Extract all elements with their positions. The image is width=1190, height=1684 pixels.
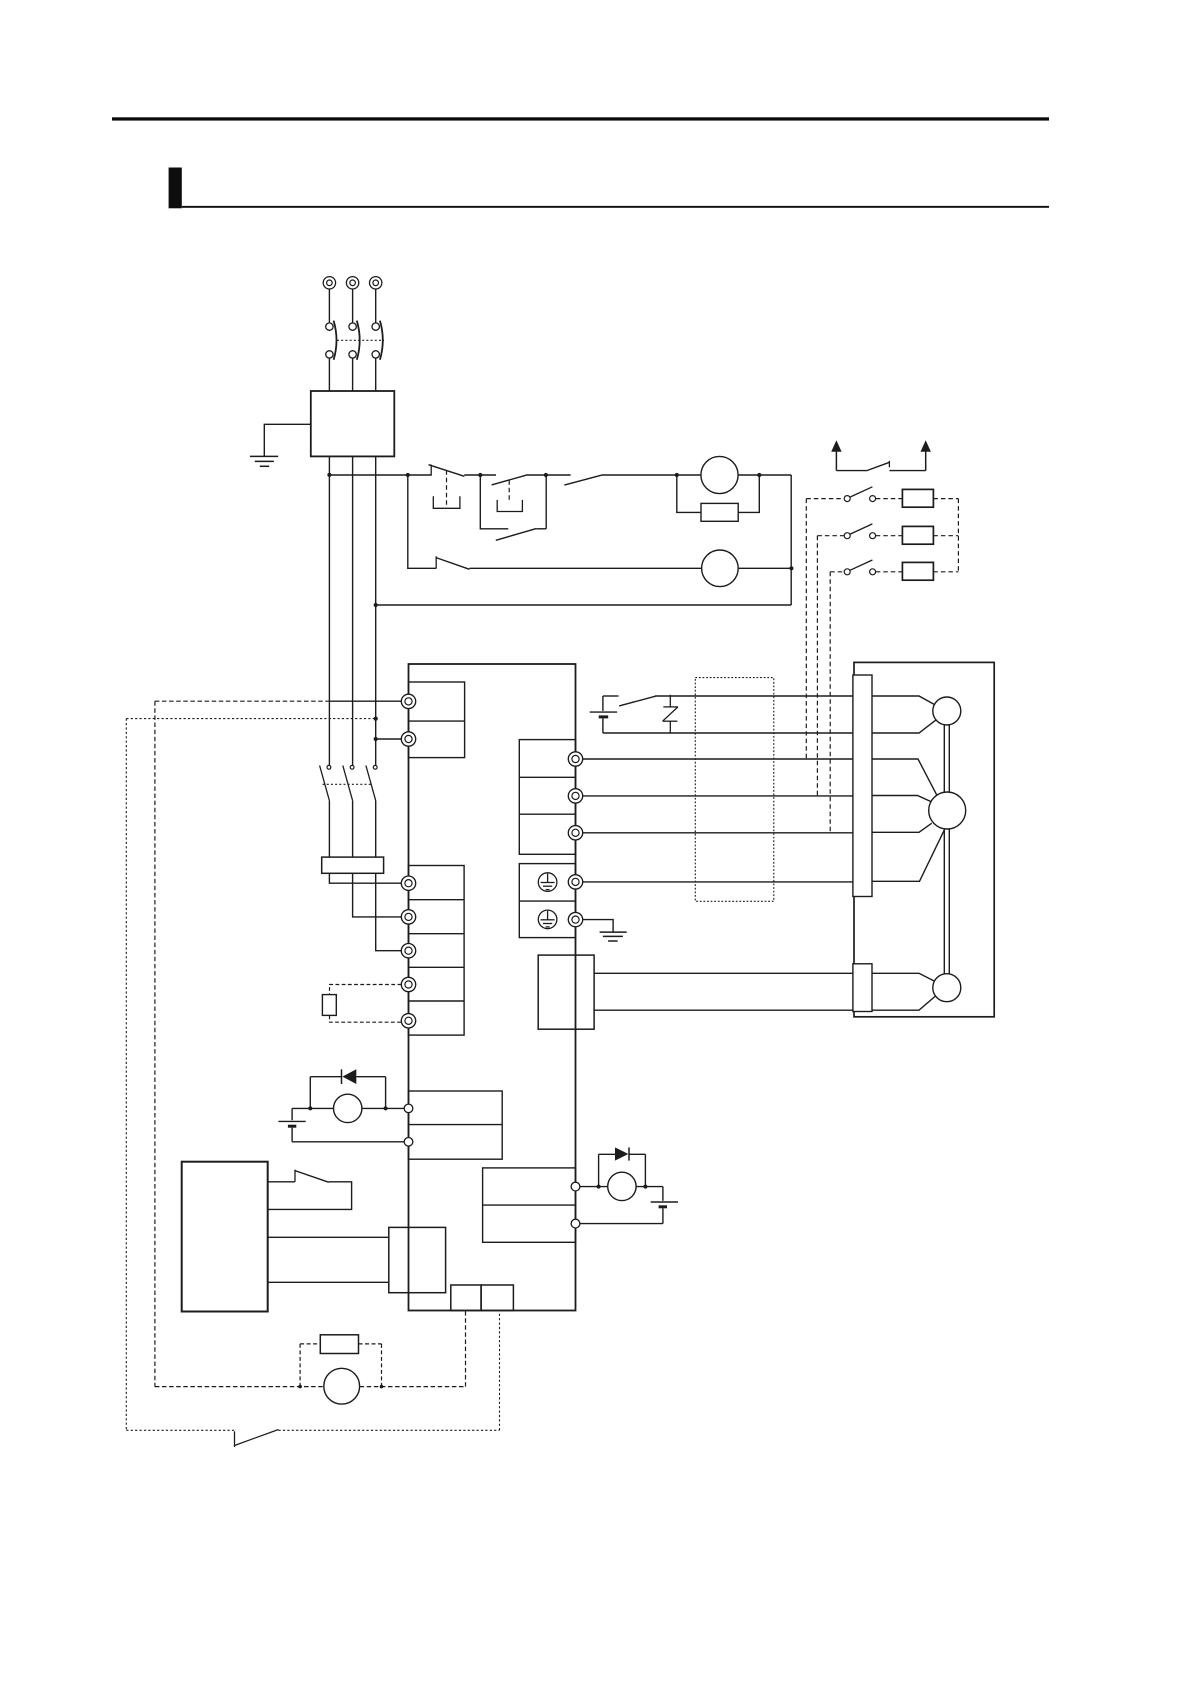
junction brake loop left — [308, 1106, 312, 1110]
relay contact row 2 — [844, 524, 875, 539]
relay coil 1Ry — [701, 456, 738, 493]
wire S MCCB to filter — [352, 358, 354, 391]
self-hold branch bottom-right — [536, 528, 546, 530]
host controller I/O wire 1 — [268, 1236, 389, 1238]
relay contact row 1 dashed lead — [806, 498, 844, 500]
section heading bar — [169, 168, 182, 209]
battery terminal - — [571, 1219, 580, 1228]
motor lead V — [872, 796, 931, 802]
dashed drop row2 to V — [816, 536, 818, 796]
battery unit block — [483, 1168, 576, 1242]
ladder top rail segment 2 — [464, 474, 496, 476]
noise filter box — [311, 391, 395, 456]
phase wire T — [375, 456, 377, 765]
cable marker dotted box — [695, 678, 774, 902]
external battery bottom wire — [580, 1223, 663, 1225]
junction battery frame right — [380, 1385, 384, 1389]
magnetic contactor pole T — [366, 765, 377, 857]
PE symbol 1 — [538, 873, 557, 892]
wire R MCCB to filter — [328, 358, 330, 391]
terminal V — [568, 789, 582, 803]
supply switch tick — [888, 461, 890, 468]
battery unit resistor — [320, 1335, 358, 1354]
regen resistor dashed lead top — [330, 985, 402, 995]
wire T terminal to MCCB — [375, 289, 377, 323]
terminal L1 — [401, 876, 415, 890]
dashed rail B riser to CN5 — [499, 1311, 501, 1431]
motor lead W — [872, 823, 932, 832]
MCCB pole 2 — [349, 321, 360, 360]
motor winding circle — [929, 792, 966, 829]
contact rows right dashed bus — [957, 499, 959, 572]
ladder left rail + rung2 lead — [408, 475, 436, 568]
main circuit terminal block — [409, 866, 465, 1036]
rail B switch — [235, 1430, 279, 1448]
dashed rail A vertical — [154, 701, 156, 1386]
PE terminal 2 — [568, 912, 582, 926]
dashed drop row1 to U — [805, 499, 807, 759]
brake terminal - — [404, 1138, 413, 1147]
surge absorber unit 3 — [902, 562, 933, 580]
relay contact row 3 — [844, 560, 875, 575]
junction battery loop left — [597, 1185, 601, 1189]
section heading rule — [182, 206, 1049, 208]
relay contact row 2 dashed right — [933, 535, 958, 537]
magnetic contactor pole R — [320, 765, 331, 857]
dashed rail B bottom left — [126, 1429, 234, 1431]
ladder bottom rail — [376, 604, 792, 606]
terminal L1C — [401, 694, 415, 708]
terminal L3 — [401, 944, 415, 958]
brake lead - — [872, 719, 937, 733]
connector CN3 — [451, 1285, 481, 1311]
surge absorber (varistor) — [663, 695, 678, 734]
encoder cable wire 1 — [594, 972, 853, 974]
indicator lamp — [702, 550, 739, 587]
terminal U — [568, 752, 582, 766]
surge suppressor branch right — [738, 475, 759, 512]
line reactor box — [322, 857, 384, 873]
motor lead PE — [872, 830, 944, 881]
dashed drop row3 to W — [829, 572, 831, 832]
brake relay loop sides — [310, 1077, 385, 1109]
MCCB pole 3 — [372, 321, 383, 360]
battery diode loop top — [599, 1147, 646, 1160]
brake wire - — [603, 732, 853, 734]
self-hold branch right riser — [545, 475, 547, 529]
contactor linkage dotted — [323, 783, 373, 785]
junction brake loop right — [384, 1106, 388, 1110]
external battery cell — [651, 1187, 678, 1224]
motor wire V — [583, 795, 853, 797]
dashed rail A riser to CN3 — [465, 1311, 467, 1387]
ladder top rail segment 4 — [601, 474, 701, 476]
junction left rail — [406, 473, 410, 477]
terminal B1 — [401, 977, 415, 991]
surge suppressor branch left — [677, 475, 701, 512]
brake diode — [342, 1069, 386, 1084]
motor output terminal block — [519, 740, 575, 855]
motor wire W — [583, 832, 853, 834]
PE symbol 2 — [538, 910, 557, 929]
external regenerative resistor — [322, 995, 336, 1016]
supply terminal R — [323, 277, 335, 289]
phase wire S — [352, 456, 354, 765]
junction self-hold left — [478, 473, 482, 477]
encoder circle — [933, 974, 961, 1002]
motor shaft lower — [944, 829, 949, 974]
relay contact row 1 dashed mid — [876, 498, 903, 500]
relay contact row 1 dashed right — [933, 498, 958, 500]
protective earth block — [519, 864, 575, 938]
filter ground wire — [264, 424, 311, 456]
dashed rail A bottom right — [360, 1386, 466, 1388]
arrow to power supply 1 — [831, 440, 841, 470]
ground symbol (amp) — [600, 932, 627, 941]
wire S terminal to MCCB — [352, 289, 354, 323]
brake supply battery (motor side) — [590, 696, 619, 733]
self-hold relay contact blade — [496, 529, 536, 541]
ground symbol (filter) — [250, 456, 278, 466]
supply switch blade — [866, 462, 890, 471]
supply terminal T — [370, 277, 382, 289]
L1C wire — [329, 700, 401, 702]
interlock contact blade — [564, 475, 601, 485]
terminal L2C — [401, 732, 415, 746]
power OFF pushbutton contact (NC) — [429, 465, 465, 477]
surge absorber unit 1 — [902, 489, 933, 507]
battery circuit wires — [580, 1186, 663, 1188]
motor wire U — [583, 758, 853, 760]
brake circuit bottom wire — [292, 1141, 404, 1143]
motor connector strip 2 — [853, 964, 872, 1012]
PE terminal 1 — [568, 875, 582, 889]
host controller I/O wire 2 — [268, 1281, 389, 1283]
brake output block — [409, 1091, 503, 1159]
wire S to L2 terminal — [353, 873, 402, 917]
L2C dashed (external) — [126, 718, 375, 720]
rung2 rail right — [738, 567, 792, 569]
junction T / L2C wire — [374, 737, 378, 741]
brake relay wires — [292, 1107, 404, 1109]
wire T to L3 terminal — [376, 873, 402, 950]
junction R / ladder rail — [327, 473, 331, 477]
surge absorber unit 2 — [902, 526, 933, 544]
wire R terminal to MCCB — [328, 289, 330, 323]
dashed rail B bottom right — [279, 1429, 500, 1431]
dashed rail B vertical — [125, 719, 127, 1431]
power ON actuator link — [508, 480, 510, 500]
page top rule — [112, 117, 1049, 120]
motor shaft upper — [944, 725, 949, 792]
wire R to L1 terminal — [329, 873, 401, 883]
encoder cable wire 2 — [594, 1009, 853, 1011]
junction rung2 right rail — [789, 566, 793, 570]
regen resistor dashed lead bottom — [330, 1015, 402, 1022]
rung2 relay contact (NC) — [436, 556, 470, 569]
junction T / control dashed — [374, 717, 378, 721]
alarm switch box — [268, 1170, 352, 1210]
power ON pushbutton contact (NO) — [492, 475, 527, 485]
PE ground wire — [583, 920, 613, 932]
relay contact row 3 dashed mid — [876, 571, 903, 573]
junction T / bottom rail — [374, 603, 378, 607]
power OFF actuator link — [446, 470, 448, 508]
ladder top rail segment 5 — [738, 474, 791, 476]
dashed rail A bottom left — [155, 1386, 324, 1388]
rung2 rail left — [469, 567, 701, 569]
junction coil branch — [675, 473, 679, 477]
relay contact row 2 dashed mid — [876, 535, 903, 537]
servo amplifier outline — [409, 664, 576, 1311]
motor connector strip 1 — [853, 675, 872, 897]
junction self-hold right — [544, 473, 548, 477]
brake terminal + — [404, 1104, 413, 1113]
encoder lead 2 — [872, 995, 937, 1010]
brake lead + — [872, 696, 937, 706]
battery diode loop sides — [599, 1154, 646, 1186]
L2C wire — [376, 738, 402, 740]
battery unit dashed frame — [300, 1344, 381, 1387]
battery terminal + — [571, 1182, 580, 1191]
ladder right rail — [790, 475, 792, 605]
brake switch blade — [619, 696, 655, 706]
self-hold branch left/bottom — [480, 475, 508, 529]
motor lead U — [872, 759, 937, 796]
servomotor outline — [854, 662, 994, 1016]
motor wire PE — [583, 881, 853, 883]
relay contact row 3 dashed lead — [830, 571, 844, 573]
magnetic contactor pole S — [343, 765, 354, 857]
connector CN5 — [481, 1285, 513, 1311]
relay contact row 3 dashed right — [933, 571, 958, 573]
arrow to power supply 2 — [921, 440, 931, 470]
junction battery loop right — [643, 1185, 647, 1189]
terminal B2 — [401, 1014, 415, 1028]
supply switch wire left — [836, 470, 866, 472]
terminal L2 — [401, 910, 415, 924]
MCCB linkage dotted — [337, 339, 384, 341]
brake coil circle — [933, 697, 961, 725]
wire T MCCB to filter — [375, 358, 377, 391]
ladder top rail segment 3 — [526, 474, 571, 476]
power ON pushbutton head — [497, 500, 522, 512]
supply terminal S — [346, 277, 358, 289]
brake relay loop top — [310, 1076, 341, 1078]
junction suppressor right — [757, 473, 761, 477]
surge suppressor resistor — [701, 503, 738, 521]
brake supply battery — [278, 1108, 305, 1141]
relay contact row 2 dashed lead — [817, 535, 844, 537]
ladder top rail segment 1 — [329, 474, 431, 476]
encoder lead 1 — [872, 973, 937, 982]
connector CN1 — [389, 1227, 446, 1292]
brake wire + — [655, 695, 853, 697]
terminal W — [568, 826, 582, 840]
host controller box — [182, 1162, 268, 1312]
MCCB pole 1 — [326, 321, 337, 360]
control power input block — [409, 682, 465, 758]
power OFF pushbutton head — [433, 496, 460, 508]
battery unit circle — [324, 1368, 360, 1404]
supply switch wire right — [889, 470, 925, 472]
L1C wire dashed (external) — [155, 700, 330, 702]
battery relay coil — [608, 1172, 636, 1200]
brake relay coil — [334, 1094, 362, 1122]
relay contact row 1 — [844, 487, 875, 502]
junction battery frame left — [298, 1385, 302, 1389]
phase wire R — [328, 456, 330, 765]
encoder connector CN2 — [538, 955, 594, 1029]
